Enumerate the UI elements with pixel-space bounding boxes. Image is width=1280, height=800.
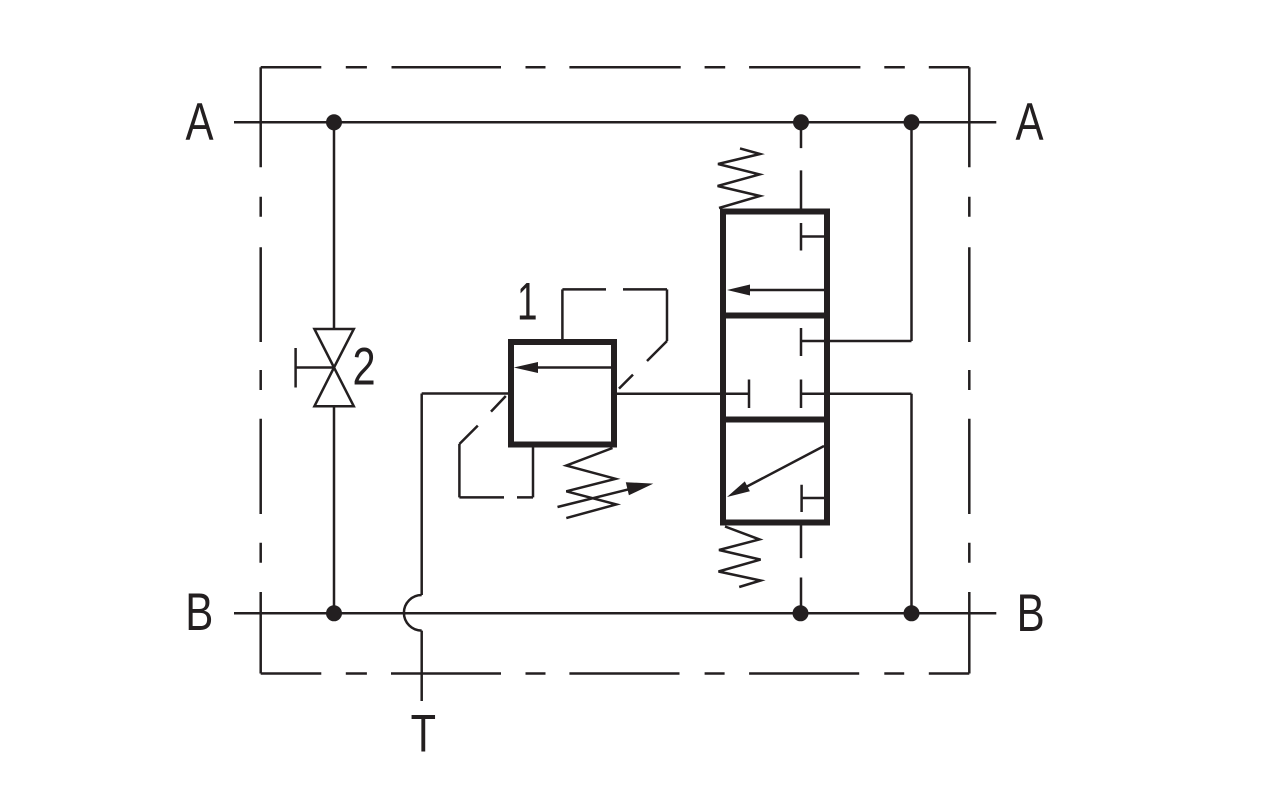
relief valve U1 flow arrowhead	[514, 362, 538, 373]
enclosure border right	[968, 67, 971, 673]
svg-text:A: A	[185, 93, 213, 152]
relief valve pilot diagonal dashes upper	[619, 341, 667, 389]
middle cell left port	[748, 380, 751, 409]
relief valve pilot top dashed run	[562, 288, 667, 291]
port line B	[234, 612, 996, 615]
relief valve U1 flow arrow line	[538, 366, 612, 369]
enclosure border top	[261, 66, 970, 69]
junction dot A3	[904, 114, 920, 130]
svg-text:2: 2	[352, 338, 375, 397]
junction dot A1	[326, 114, 342, 130]
enclosure border left	[259, 67, 262, 673]
svg-text:1: 1	[517, 272, 537, 331]
relief valve adjust arrowhead	[626, 482, 654, 495]
relief valve adjust arrow shaft	[558, 487, 641, 508]
T line bridge arc over B	[404, 595, 422, 631]
needle valve V2 stem tap	[296, 348, 334, 388]
needle valve V2 lower triangle	[314, 368, 353, 407]
enclosure border bottom	[261, 672, 970, 675]
dashed pilot: valve bottom to B	[800, 526, 803, 614]
wire: throttle branch lower	[333, 406, 336, 613]
bottom cell diagonal arrowhead	[727, 481, 750, 497]
junction dot B3	[904, 605, 920, 621]
middle cell right port	[801, 380, 912, 409]
relief valve pilot riser	[561, 289, 564, 339]
wire: throttle branch upper	[333, 122, 336, 329]
svg-text:T: T	[411, 705, 436, 764]
svg-text:B: B	[185, 583, 213, 642]
port line A	[234, 121, 996, 124]
top cell blocked port	[801, 223, 824, 251]
directional valve top spring	[718, 148, 760, 208]
top cell arrowhead	[727, 285, 750, 296]
relief valve drain diagonal dashes lower	[459, 396, 505, 444]
wire: T line below B	[420, 631, 423, 701]
junction dot A2	[793, 114, 809, 130]
wire: right branch A drop	[910, 122, 913, 341]
relief valve U1 body	[511, 342, 614, 445]
wire: T line vertical	[420, 394, 423, 596]
wire: relief to directional valve	[617, 393, 749, 396]
directional valve bottom spring	[719, 527, 761, 588]
directional valve divider 2	[720, 417, 830, 423]
wire: right branch B riser	[910, 394, 913, 614]
junction dot B2	[793, 605, 809, 621]
junction dot B1	[326, 605, 342, 621]
dashed pilot: A to valve top	[800, 126, 803, 209]
top cell arrow line	[748, 289, 824, 292]
relief valve pilot right drop	[666, 289, 669, 341]
bottom cell blocked port	[802, 485, 828, 512]
relief valve drain bottom dashed run	[459, 496, 533, 499]
svg-text:B: B	[1017, 584, 1045, 643]
relief valve spring	[566, 448, 616, 518]
directional valve U3 body	[723, 212, 827, 523]
svg-text:A: A	[1015, 93, 1043, 152]
directional valve divider 1	[720, 313, 830, 319]
bottom cell diagonal arrow shaft	[747, 446, 824, 487]
relief valve drain left drop	[458, 444, 461, 497]
middle cell top port	[801, 328, 912, 356]
relief valve drain right riser	[532, 448, 535, 498]
wire: relief output to T line	[422, 392, 508, 395]
needle valve V2 upper triangle	[314, 329, 353, 368]
